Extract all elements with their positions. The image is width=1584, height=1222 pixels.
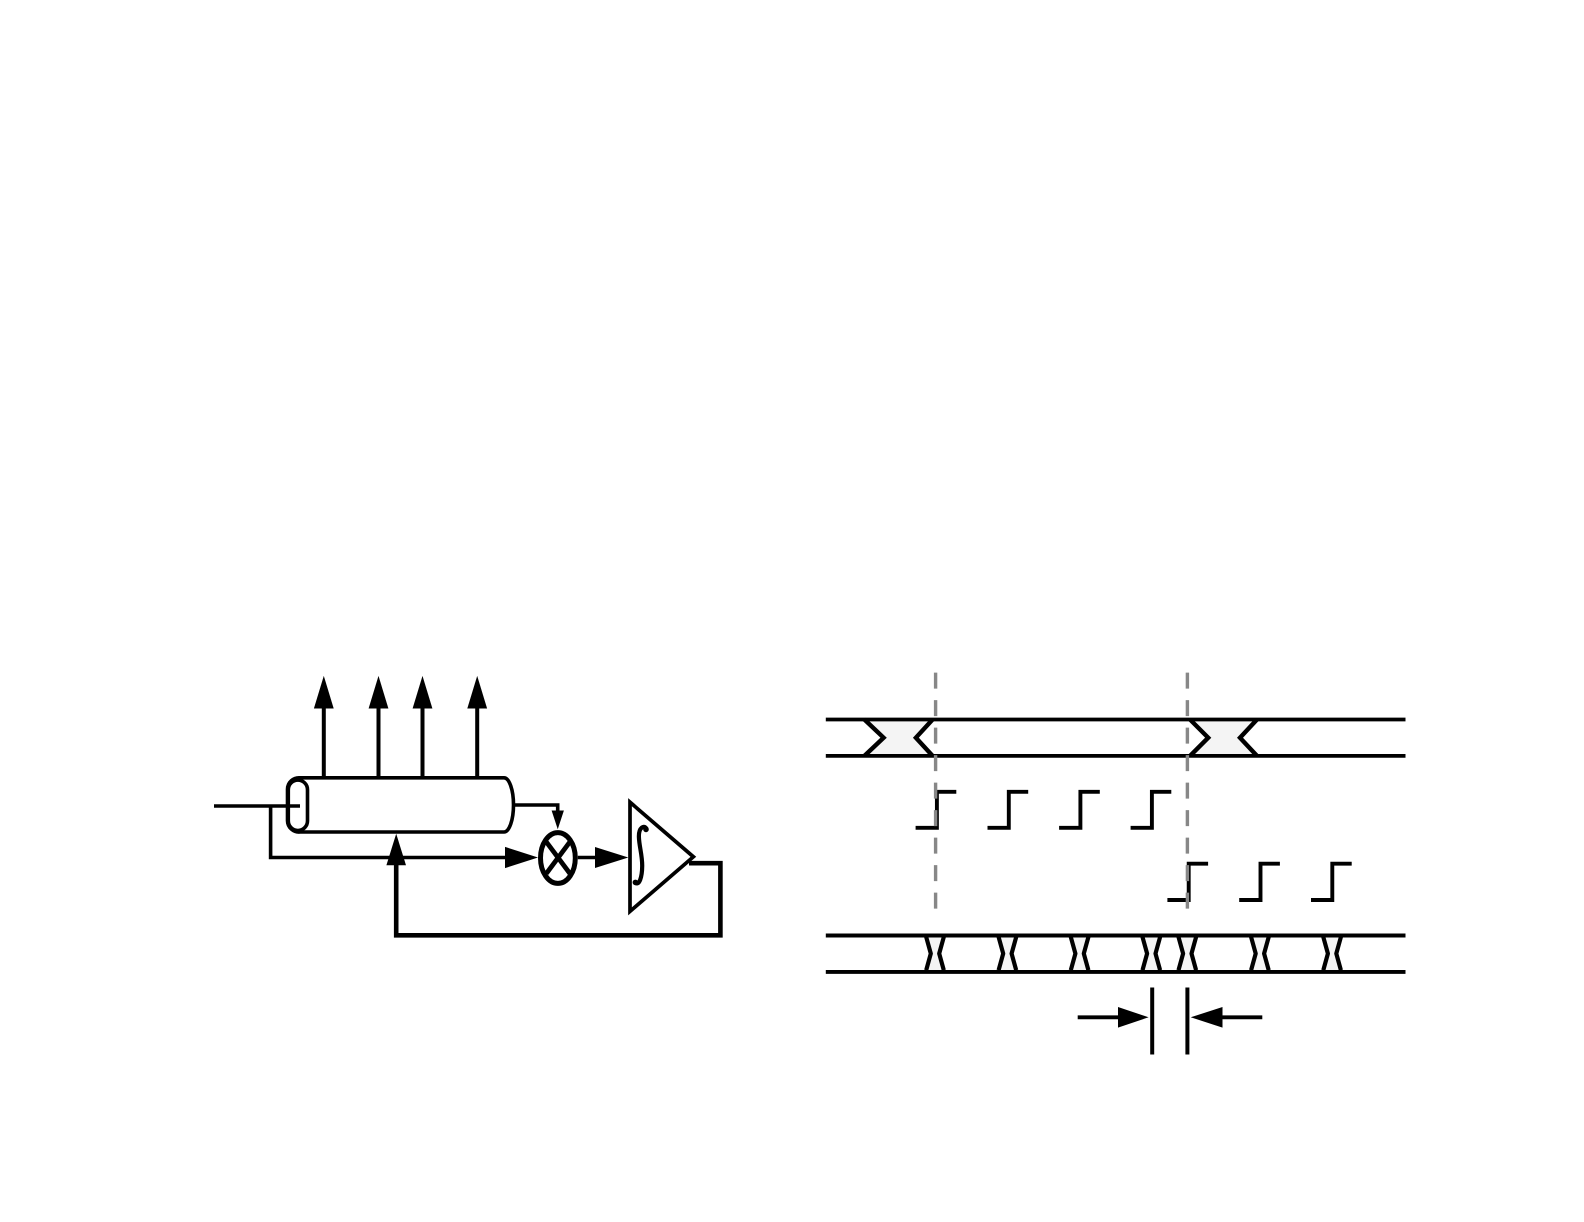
- bus B transition 6 left stroke: [1251, 937, 1256, 970]
- tap output arrow 3 (up): [413, 676, 433, 778]
- wire: input line: [214, 804, 300, 808]
- arrowhead: feedback into delay line bottom: [386, 834, 406, 866]
- measure tick right: [1185, 988, 1189, 1055]
- bus B transition 4 left stroke: [1143, 937, 1148, 970]
- bus A transition chevron < (1): [916, 720, 933, 756]
- bus B transition 5 fill: [1179, 937, 1197, 970]
- measure arrow right: [1191, 1007, 1263, 1028]
- cursor dashed line 2: [1186, 673, 1189, 918]
- clock burst 2 pulse 2: [1239, 864, 1280, 900]
- bus B transition 3 right stroke: [1084, 937, 1089, 970]
- tap output arrow 2 (up): [369, 676, 389, 778]
- bus B transition 7 right stroke: [1336, 937, 1341, 970]
- bus B transition 3 left stroke: [1071, 937, 1076, 970]
- integral sign bottom ball: [633, 880, 639, 886]
- bus A valid-region fill 2: [1190, 720, 1257, 756]
- bus A bottom rail: [826, 754, 1406, 758]
- measure tick left: [1150, 988, 1154, 1055]
- wire: feedback loop: [396, 862, 720, 935]
- bus A transition chevron > (1): [864, 720, 883, 756]
- clock burst 1 pulse 1: [916, 792, 957, 828]
- bus B transition 7 left stroke: [1323, 937, 1328, 970]
- integral sign stroke: [635, 827, 647, 884]
- bus B transition 6 right stroke: [1264, 937, 1269, 970]
- bus B transition 4 right stroke: [1156, 937, 1161, 970]
- wire: delay line output to multiplier top: [514, 805, 558, 812]
- bus A top rail: [826, 718, 1406, 722]
- wire: multiplier to integrator: [578, 856, 600, 860]
- bus B transition 2 fill: [999, 937, 1017, 970]
- bus B transition 7 fill: [1323, 937, 1341, 970]
- bus B transition 5 right stroke: [1192, 937, 1197, 970]
- bus B transition 1 fill: [926, 937, 944, 970]
- bus B transition 2 right stroke: [1012, 937, 1017, 970]
- bus B transition 1 right stroke: [939, 937, 944, 970]
- bus B bottom rail: [826, 970, 1406, 974]
- tap output arrow 4 (up): [467, 676, 487, 778]
- bus B transition 1 left stroke: [926, 937, 931, 970]
- bus B transition 4 fill: [1143, 937, 1161, 970]
- clock burst 1 pulse 4: [1131, 792, 1172, 828]
- clock burst 2 pulse 1: [1167, 864, 1208, 900]
- wire: input branch down and lower feed to multiplier: [271, 806, 508, 858]
- measure arrow left: [1078, 1007, 1149, 1028]
- bus B top rail: [826, 934, 1406, 938]
- bus B transition 2 left stroke: [999, 937, 1004, 970]
- arrowhead into integrator: [595, 847, 628, 868]
- delay line left end cap: [288, 780, 307, 830]
- delay line (cylinder) body: [288, 778, 514, 832]
- tap output arrow 1 (up): [314, 676, 334, 778]
- integrator triangle: [630, 802, 693, 911]
- arrowhead: lower feed into multiplier: [505, 847, 538, 868]
- bus B transition 5 left stroke: [1179, 937, 1184, 970]
- bus B transition 3 fill: [1071, 937, 1089, 970]
- multiplier (mixer) circle: [541, 833, 576, 884]
- bus A transition chevron > (2): [1190, 720, 1208, 756]
- bus B transition 6 fill: [1251, 937, 1269, 970]
- bus A transition chevron < (2): [1240, 720, 1257, 756]
- bus A valid-region fill 1: [864, 720, 932, 756]
- clock burst 2 pulse 3: [1311, 864, 1352, 900]
- clock burst 1 pulse 2: [988, 792, 1029, 828]
- integral sign top ball: [643, 827, 649, 833]
- multiplier X: [546, 842, 569, 873]
- arrowhead into multiplier top: [552, 811, 564, 830]
- clock burst 1 pulse 3: [1059, 792, 1100, 828]
- cursor dashed line 1: [934, 673, 937, 911]
